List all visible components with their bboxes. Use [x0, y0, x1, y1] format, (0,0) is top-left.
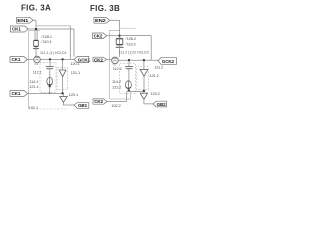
wire top rail right: [120, 35, 152, 37]
wire bulb down: [49, 86, 51, 93]
svg-text:FIG. 3B: FIG. 3B: [90, 4, 120, 13]
svg-text:111.2 (1) D HCLD2: 111.2 (1) D HCLD2: [119, 50, 149, 54]
terminal SE2: [93, 99, 107, 104]
sub-box inverters dashed: [57, 68, 68, 90]
wire term right and up: [107, 92, 127, 102]
svg-text:FIG. 3A: FIG. 3A: [21, 3, 51, 12]
node dot cap tap: [128, 59, 130, 61]
capacitor C2: [125, 66, 133, 68]
wire CK1: [28, 28, 36, 30]
svg-text:GCK2: GCK2: [162, 59, 175, 64]
svg-text:G2: G2: [35, 62, 39, 66]
svg-text:123.1: 123.1: [69, 92, 78, 97]
wire EN2: [110, 19, 120, 21]
terminal EN1: [17, 17, 34, 23]
sub-box 112.1 dashed: [40, 62, 56, 92]
gate U2 circle: [112, 57, 119, 64]
svg-text:EN1: EN1: [17, 18, 29, 23]
inverter I2: [60, 97, 67, 103]
node dot B1: [118, 34, 120, 36]
terminal CK2: [93, 33, 107, 39]
svg-text:CK1: CK1: [12, 57, 21, 62]
terminal GB2: [153, 101, 167, 107]
gate U1 circle: [34, 56, 41, 63]
transistor bar: [33, 48, 39, 50]
svg-text:120.1: 120.1: [70, 61, 79, 66]
wire gate output rail: [40, 58, 74, 60]
wire vertical x36: [35, 20, 37, 29]
wire right rail down: [69, 26, 71, 60]
inverter I4: [140, 93, 147, 99]
node dot inv tap: [143, 59, 145, 61]
transistor 110.2 pass gate box: [116, 38, 123, 45]
label 128.2: [125, 36, 136, 41]
wire bulb to inv2: [127, 90, 144, 91]
wire pass gate rails: [35, 30, 37, 41]
gate U2 marks: [113, 58, 117, 61]
label 110.2: [125, 41, 136, 46]
svg-text:112.1: 112.1: [33, 70, 42, 75]
transistor Q2 bulb: [125, 81, 131, 89]
svg-text:112.2: 112.2: [113, 66, 122, 71]
node dot bulb out: [128, 89, 130, 91]
wire cap to bulb: [128, 69, 130, 82]
terminal CK1: [11, 26, 29, 32]
terminal GCK1: [74, 56, 91, 62]
svg-text:110.2: 110.2: [127, 41, 136, 46]
svg-text:110.1: 110.1: [43, 39, 52, 44]
node dot bulb out: [49, 85, 51, 87]
sub-box inverters dashed: [137, 67, 149, 90]
terminal SE1: [10, 91, 28, 97]
transistor Q1 bulb: [47, 77, 53, 85]
svg-text:EN2: EN2: [95, 18, 106, 23]
wire top tap to right rail: [36, 25, 70, 27]
svg-text:CK1: CK1: [12, 91, 21, 96]
wire CK2: [107, 35, 120, 37]
inverter I1: [62, 59, 64, 70]
svg-text:123.2: 123.2: [150, 91, 159, 96]
wire right rail down: [150, 36, 152, 61]
terminal CK1b: [10, 57, 27, 63]
terminal EN2: [94, 18, 110, 24]
node dot inv tap: [61, 58, 63, 60]
sub-box 112.2 dashed: [120, 63, 136, 93]
svg-text:121.1: 121.1: [29, 84, 38, 89]
inverter I3: [143, 60, 145, 69]
svg-text:GCK1: GCK1: [78, 57, 91, 62]
wire term to gate: [27, 59, 33, 61]
wire faint top tap: [120, 27, 136, 29]
box 102.2 dashed: [110, 30, 131, 99]
label 110.1: [41, 39, 52, 44]
label 128.1: [41, 34, 52, 39]
transistor 110.1 pass gate box: [34, 40, 39, 47]
svg-text:CK2: CK2: [94, 33, 103, 38]
svg-text:121.2: 121.2: [112, 84, 121, 89]
wire stem to gate G1: [35, 47, 37, 57]
svg-text:GB2: GB2: [157, 102, 167, 107]
wire stem to gate: [119, 45, 121, 57]
gate U1 marks: [35, 58, 39, 61]
terminal GCK2: [158, 58, 177, 65]
node dot inv2 in: [61, 92, 63, 94]
box 102.1 dashed: [29, 31, 41, 109]
svg-text:CK2: CK2: [94, 99, 103, 104]
wire vertical x119.6: [119, 20, 121, 38]
terminal CK2b: [93, 57, 107, 62]
wire EN1 to node: [33, 19, 36, 21]
svg-text:CK2: CK2: [94, 57, 103, 62]
svg-text:CK1: CK1: [12, 27, 21, 32]
wire cap stem: [128, 60, 130, 66]
wire gate output rail: [118, 59, 158, 61]
svg-text:121.2: 121.2: [149, 73, 158, 78]
terminal GB1: [74, 103, 89, 109]
wire bottom rail: [28, 92, 63, 94]
node dot A1: [35, 28, 37, 30]
svg-text:111.1 (1) HCLD1: 111.1 (1) HCLD1: [40, 51, 67, 55]
svg-text:121.1: 121.1: [71, 70, 80, 75]
node dot inv2 in: [143, 90, 145, 92]
svg-text:111.2: 111.2: [154, 65, 163, 70]
transistor bar: [116, 46, 124, 48]
svg-text:102.2: 102.2: [111, 103, 120, 108]
wire cap stem: [49, 59, 51, 66]
wire cap to bulb: [49, 69, 51, 77]
node dot cap tap: [49, 58, 51, 60]
svg-text:128.2: 128.2: [127, 36, 136, 41]
svg-text:GB1: GB1: [78, 103, 88, 108]
wire term to gate: [107, 59, 112, 61]
capacitor C1: [46, 66, 54, 68]
